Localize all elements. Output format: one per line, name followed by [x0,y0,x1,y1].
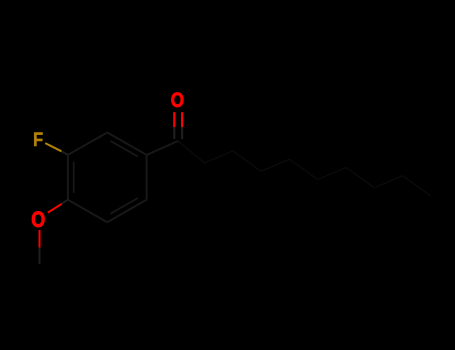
svg-text:O: O [31,207,45,232]
svg-text:O: O [171,88,184,112]
svg-text:F: F [33,130,43,151]
